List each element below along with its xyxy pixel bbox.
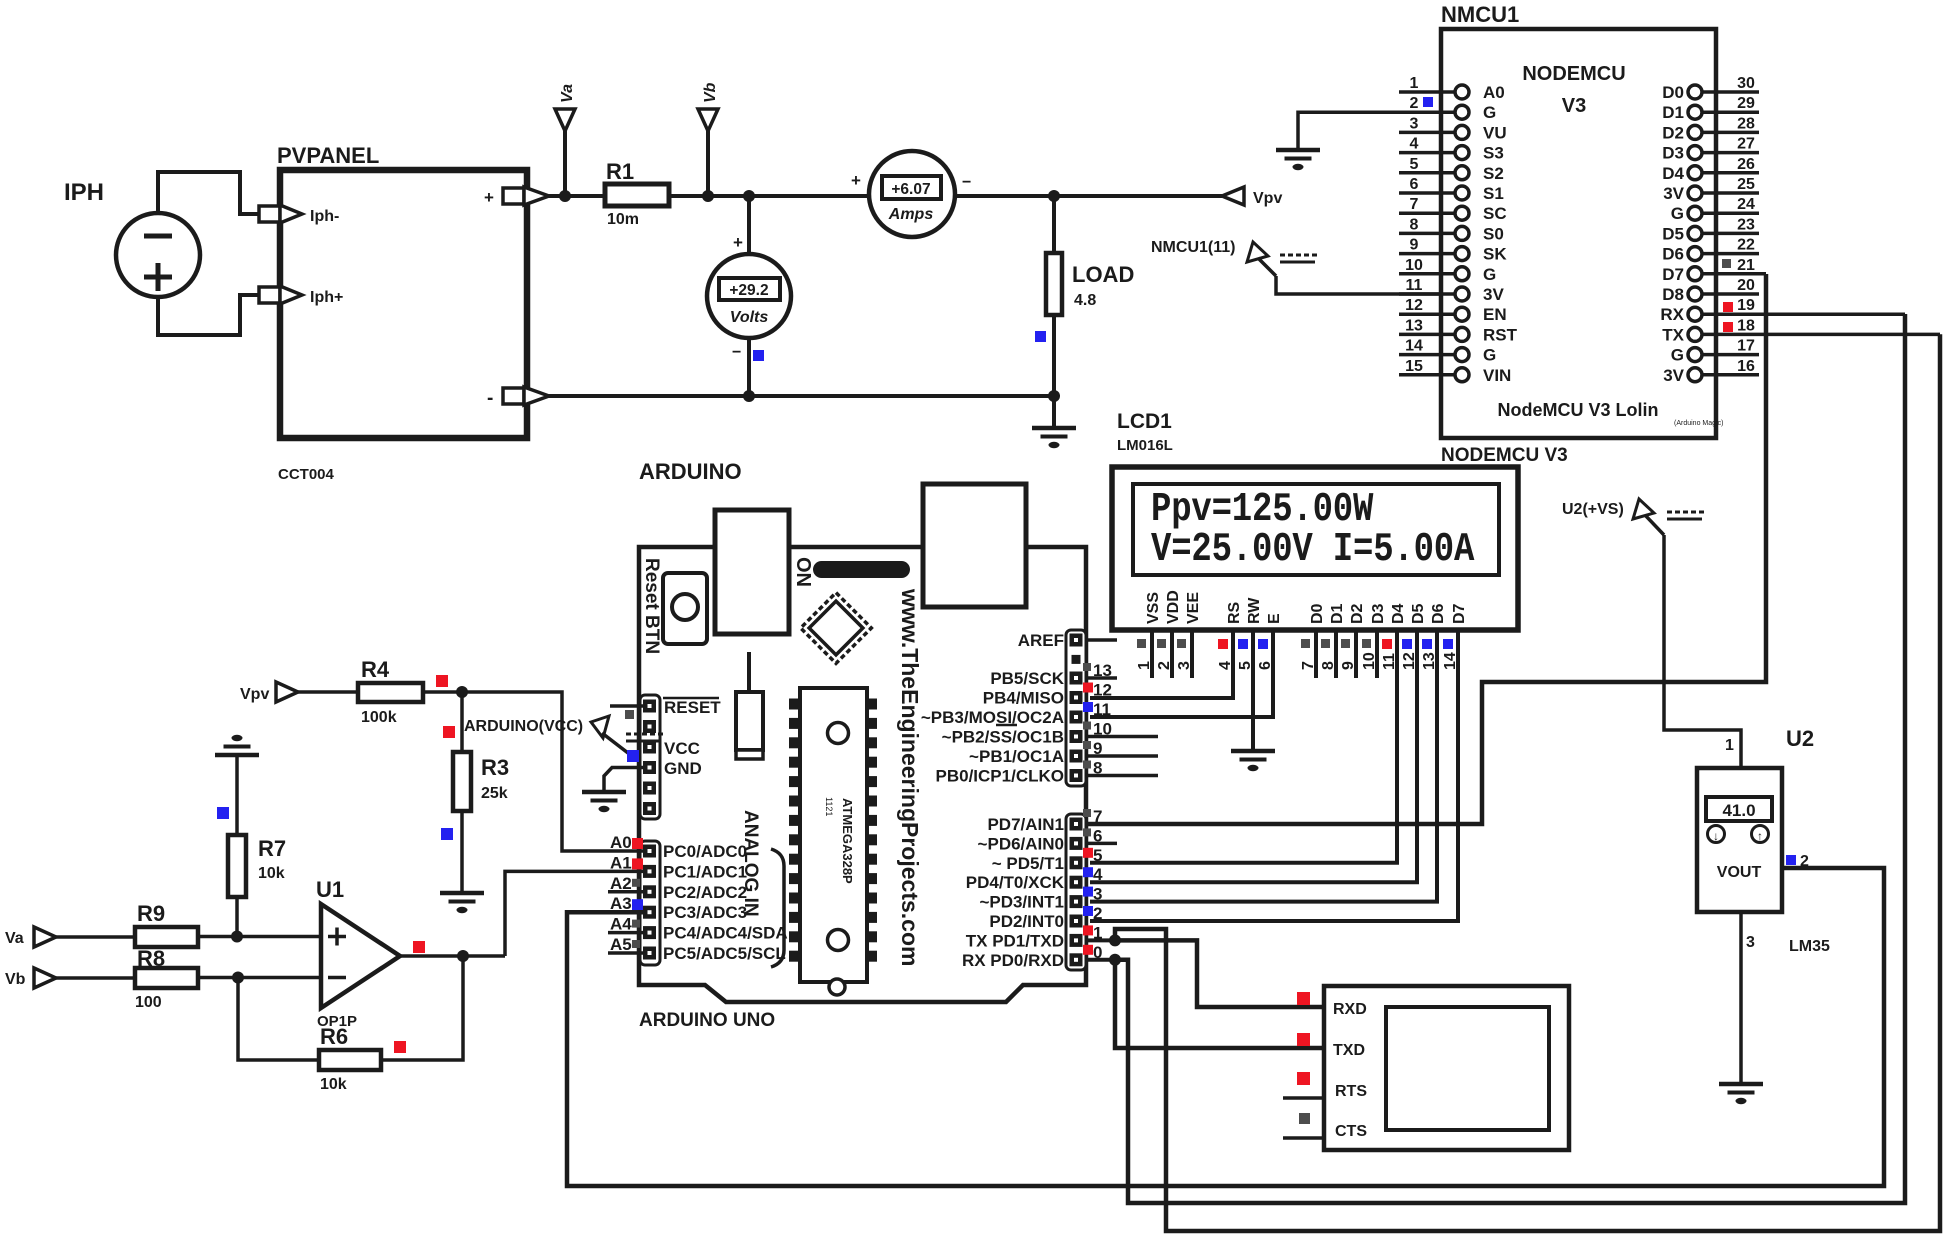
svg-text:6: 6 [1410,176,1419,193]
svg-text:ATMEGA328P: ATMEGA328P [840,798,855,884]
svg-text:D4: D4 [1662,164,1684,183]
wire U2 pin3 to ground [1739,912,1743,1083]
label AREF [1018,631,1064,650]
wire R7 to plus input [235,897,239,937]
svg-text:4: 4 [1410,136,1419,153]
ground above R7 [215,735,259,755]
wire arduino TX PD1 net [1086,334,1940,1231]
stub pin8 [1086,774,1158,778]
junction bottom load [1048,390,1060,402]
svg-text:LOAD: LOAD [1072,262,1134,287]
svg-text:D2: D2 [1662,123,1684,142]
wire LCD RS pin4 to arduino pin12 [1090,630,1233,698]
junction RX PD0 [1109,954,1121,966]
svg-text:V=25.00V I=5.00A: V=25.00V I=5.00A [1151,527,1475,573]
probe Vpv input [240,682,298,703]
svg-text:PC3/ADC3: PC3/ADC3 [663,903,747,922]
LCD pin numbers and tags [1136,639,1459,670]
junction load top [1048,190,1060,202]
svg-text:G: G [1671,346,1684,365]
ground at NodeMCU pin2 [1276,150,1320,170]
svg-text:D1: D1 [1329,603,1346,624]
svg-text:PD2/INT0: PD2/INT0 [989,912,1064,931]
svg-text:OP1P: OP1P [317,1013,357,1030]
svg-text:4.8: 4.8 [1074,292,1096,309]
svg-text:www.TheEngineeringProjects.com: www.TheEngineeringProjects.com [897,588,923,966]
probe Vb top [698,82,719,196]
svg-text:5: 5 [1093,846,1102,865]
svg-text:RTS: RTS [1335,1083,1367,1100]
svg-text:ARDUINO(VCC): ARDUINO(VCC) [464,718,583,735]
arduino smd chip diamond [801,593,872,664]
resistor LOAD [1046,253,1134,315]
label U2 pin2 [1800,853,1809,870]
terminal block [1324,986,1569,1150]
svg-text:U1: U1 [316,877,344,902]
svg-text:CCT004: CCT004 [278,466,335,483]
label RTS [1335,1083,1367,1100]
svg-text:3: 3 [1093,885,1102,904]
label U2 pin1 [1725,737,1734,754]
red tag R6 [394,1041,406,1053]
svg-text:30: 30 [1737,75,1755,92]
svg-text:D0: D0 [1662,83,1684,102]
svg-text:~PB3/MOSI/OC2A: ~PB3/MOSI/OC2A [921,708,1064,727]
svg-text:~PB2/SS/OC1B: ~PB2/SS/OC1B [942,728,1064,747]
arduino USB connector [715,510,789,634]
svg-text:+: + [484,188,494,207]
svg-text:NODEMCU: NODEMCU [1522,63,1625,85]
svg-text:VCC: VCC [664,739,700,758]
terminal screen [1386,1007,1549,1130]
svg-text:LM35: LM35 [1789,938,1830,955]
svg-text:1121: 1121 [824,797,834,816]
junction at Va [559,190,571,202]
red tag TXD [1297,1033,1310,1046]
svg-text:15: 15 [1405,358,1423,375]
voltmeter Volts [707,254,791,338]
svg-text:Reset BTN: Reset BTN [641,558,662,654]
ammeter minus label [962,174,971,191]
svg-text:28: 28 [1737,115,1755,132]
svg-text:R1: R1 [606,159,634,184]
svg-text:Vb: Vb [702,82,719,103]
svg-text:D1: D1 [1662,103,1684,122]
svg-text:27: 27 [1737,136,1755,153]
LCD pin labels [1145,590,1468,624]
svg-text:ARDUINO UNO: ARDUINO UNO [639,1010,775,1031]
wire R8 to opamp minus [198,976,321,980]
wire +VS to U2 pin1 [1664,535,1741,768]
label CTS [1335,1123,1367,1140]
svg-text:U2: U2 [1786,726,1814,751]
block PVPANEL [277,143,527,438]
gray tag reset [625,710,634,719]
svg-text:PD4/T0/XCK: PD4/T0/XCK [966,873,1065,892]
NodeMCU right pins 16-30 [1660,75,1940,385]
resistor R8 [135,946,198,1011]
svg-text:RX PD0/RXD: RX PD0/RXD [962,951,1064,970]
svg-text:3V: 3V [1483,285,1504,304]
svg-text:PB0/ICP1/CLKO: PB0/ICP1/CLKO [936,767,1064,786]
svg-text:11: 11 [1093,700,1111,719]
svg-text:D5: D5 [1662,224,1684,243]
ground at arduino GND [582,792,626,812]
blue tag NodeMCU pin2 [1423,97,1433,107]
svg-text:RST: RST [1483,325,1518,344]
svg-text:26: 26 [1737,156,1755,173]
wire opamp output [400,954,505,958]
label VCC [664,739,700,758]
LCD display screen [1133,484,1499,575]
svg-text:+29.2: +29.2 [729,282,768,299]
svg-text:41.0: 41.0 [1722,801,1755,820]
svg-text:8: 8 [1410,216,1419,233]
wire LCD D4 pin11 to arduino pin5 [1090,630,1397,863]
svg-text:2: 2 [1800,853,1809,870]
svg-text:NODEMCU V3: NODEMCU V3 [1441,445,1568,466]
svg-text:VIN: VIN [1483,366,1511,385]
wire output to A1 [505,871,643,956]
sensor U2 LM35 body [1697,726,1814,912]
stub RTS [1283,1096,1324,1100]
svg-text:−: − [962,174,971,191]
label Reset BTN [641,558,662,654]
arduino crystal [736,652,763,759]
wire R3 to ground [460,811,464,893]
resistor R1 [605,159,669,228]
gray tag CTS [1299,1113,1310,1124]
arduino power header pads [640,695,660,819]
wire ground to R7 [235,755,239,835]
svg-text:LM016L: LM016L [1117,437,1173,454]
volt meter plus label [733,233,743,252]
svg-text:10m: 10m [607,211,639,228]
svg-text:+6.07: +6.07 [891,181,930,198]
arduino power jack [923,484,1026,607]
svg-text:GND: GND [664,759,702,778]
svg-text:7: 7 [1410,196,1419,213]
probe Vpv output [1222,187,1282,207]
svg-text:3V: 3V [1663,366,1684,385]
pin Iph+ of PVPANEL [259,286,343,306]
svg-text:RESET: RESET [664,698,721,717]
svg-text:~PD6/AIN0: ~PD6/AIN0 [978,834,1064,853]
svg-text:A0: A0 [610,833,632,852]
svg-text:NMCU1: NMCU1 [1441,2,1519,27]
svg-text:S1: S1 [1483,184,1504,203]
svg-text:PC1/ADC1: PC1/ADC1 [663,862,747,881]
label ANALOG IN [740,810,761,917]
svg-text:AREF: AREF [1018,631,1064,650]
stub A5 [608,951,643,955]
svg-text:5: 5 [1410,156,1419,173]
ground under load [1032,428,1076,448]
svg-text:22: 22 [1737,237,1755,254]
blue tag R3 bottom [441,828,453,840]
probe U2(+VS) [1562,499,1704,535]
wire volts meter branch [747,196,751,254]
LCD text line2 [1151,527,1475,573]
svg-text:U2(+VS): U2(+VS) [1562,501,1624,518]
wire load top [1052,196,1056,253]
junction R4 R3 [456,686,468,698]
ground under U2 [1719,1084,1763,1104]
stub pin9 [1086,754,1158,758]
wire LCD RW pin5 to ground [1251,630,1255,750]
svg-text:D0: D0 [1309,603,1326,624]
wire LCD D7 pin14 to arduino pin2 [1090,630,1458,921]
pin - of PVPANEL [487,387,549,409]
svg-text:D4: D4 [1390,603,1407,624]
wire voltmeter to bottom rail [747,338,751,397]
stub AREF [1086,638,1117,642]
svg-text:3: 3 [1746,934,1755,951]
wire IPH top to Iph- [158,172,259,214]
svg-text:S2: S2 [1483,164,1504,183]
svg-text:16: 16 [1737,358,1755,375]
label TXD [1333,1042,1365,1059]
svg-text:EN: EN [1483,305,1507,324]
svg-text:SC: SC [1483,204,1507,223]
svg-text:100k: 100k [361,709,397,726]
svg-text:Volts: Volts [730,309,769,326]
svg-text:IPH: IPH [64,179,104,206]
svg-text:↑: ↑ [1757,829,1763,843]
svg-text:G: G [1483,346,1496,365]
svg-text:Amps: Amps [888,206,934,223]
resistor R6 [319,1024,381,1093]
svg-text:9: 9 [1410,237,1419,254]
svg-text:D5: D5 [1410,603,1427,624]
svg-text:17: 17 [1737,338,1755,355]
probe Vb input [5,968,56,988]
wire stub reset pin [610,704,643,708]
U2 adjust buttons [1708,826,1769,844]
svg-text:PC5/ADC5/SCL: PC5/ADC5/SCL [663,944,786,963]
arduino pin numbers 7-0 [1083,807,1103,962]
svg-text:RW: RW [1246,597,1263,624]
svg-text:VSS: VSS [1145,592,1162,624]
svg-text:↓: ↓ [1713,829,1719,843]
blue tag load [1035,331,1046,342]
resistor R9 [135,901,198,947]
arduino DIP28 ATMEGA328P [789,688,877,995]
svg-text:V3: V3 [1562,95,1586,117]
NodeMCU left pins 1-15 [1399,75,1518,385]
wire PV+ to R1 [547,194,606,198]
label VOUT [1717,864,1762,881]
label RXD [1333,1001,1367,1018]
svg-text:1: 1 [1725,737,1734,754]
bottom rail PV- to load [547,394,1054,398]
svg-text:TX PD1/TXD: TX PD1/TXD [966,931,1064,950]
arduino analog header pads [640,841,660,965]
svg-text:2: 2 [1093,904,1102,923]
pin + of PVPANEL [484,187,549,207]
probe Va [555,84,576,196]
arduino digital header pads PD [1066,814,1086,970]
red tag R4 [436,675,448,687]
probe ARDUINO(VCC) [464,716,663,753]
svg-text:~PB1/OC1A: ~PB1/OC1A [969,747,1064,766]
svg-text:RS: RS [1226,601,1243,624]
wire to ground under load [1052,396,1056,428]
node IPH label [64,179,104,206]
ground at LCD RW [1231,751,1275,771]
resistor R4 [358,657,423,726]
red tag NodeMCU pin18 [1723,322,1733,332]
wire Vb to R8 [56,976,135,980]
svg-text:21: 21 [1737,257,1755,274]
svg-text:−: − [732,344,741,361]
svg-text:E: E [1266,613,1283,624]
svg-text:R8: R8 [137,946,165,971]
wire NMCU1(11) to pin 11 [1276,276,1453,294]
svg-text:A1: A1 [610,853,632,872]
op-amp U1 [316,877,400,1030]
arduino PC pin labels [663,842,788,963]
svg-text:RX: RX [1660,305,1684,324]
svg-text:CTS: CTS [1335,1123,1367,1140]
label website vertical [897,588,923,966]
svg-text:D3: D3 [1662,144,1684,163]
svg-text:D7: D7 [1662,265,1684,284]
probe Va input [5,927,56,947]
svg-text:11: 11 [1406,277,1423,294]
svg-text:~PD3/INT1: ~PD3/INT1 [979,893,1064,912]
svg-text:ARDUINO: ARDUINO [639,459,742,484]
wire R9 to opamp plus [198,935,321,939]
svg-text:1: 1 [1410,75,1419,92]
svg-text:PB5/SCK: PB5/SCK [990,669,1064,688]
svg-text:Vpv: Vpv [1253,190,1282,207]
red tag NodeMCU pin19 [1723,302,1733,312]
blue tag vcc [627,750,639,762]
resistor R3 [453,752,509,811]
svg-text:23: 23 [1737,216,1755,233]
svg-text:VDD: VDD [1165,590,1182,624]
svg-text:12: 12 [1093,681,1112,700]
svg-text:+: + [851,171,861,190]
arduino analog pin labels [610,833,643,954]
stub A2 [608,890,643,894]
blue tag R7 [217,807,229,819]
junction volts branch [743,190,755,202]
svg-text:Va: Va [5,930,24,947]
ground under R3 [440,893,484,913]
wire R4 junction down to R3 [460,692,464,752]
svg-text:10: 10 [1405,257,1423,274]
svg-text:PC2/ADC2: PC2/ADC2 [663,883,747,902]
wire IPH bottom to Iph+ [158,295,259,335]
svg-text:S0: S0 [1483,224,1504,243]
svg-text:(Arduino Magic): (Arduino Magic) [1674,420,1723,427]
junction TX PD1 [1109,934,1121,946]
label ON [792,557,814,587]
svg-text:VU: VU [1483,123,1507,142]
svg-text:D3: D3 [1370,603,1387,624]
svg-text:RXD: RXD [1333,1001,1367,1018]
wire R4 to A0 [423,692,643,851]
pin Iph- of PVPANEL [259,205,339,225]
junction R7 Va [231,931,243,943]
svg-text:LCD1: LCD1 [1117,410,1172,433]
label CCT004 [278,466,335,483]
wire R6 to output junction [381,956,463,1060]
svg-text:Iph-: Iph- [310,208,339,225]
svg-text:G: G [1483,265,1496,284]
svg-text:D7: D7 [1451,603,1468,624]
svg-text:ON: ON [792,557,814,587]
wire Va to R9 [56,935,135,939]
svg-text:10k: 10k [258,865,285,882]
svg-text:A5: A5 [610,935,632,954]
svg-text:A0: A0 [1483,83,1505,102]
svg-text:12: 12 [1405,297,1423,314]
svg-text:S3: S3 [1483,144,1504,163]
wire NodeMCU pin2 to ground [1298,112,1399,149]
svg-text:D6: D6 [1662,245,1684,264]
svg-text:~ PD5/T1: ~ PD5/T1 [992,854,1064,873]
red tag RTS [1297,1072,1310,1085]
resistor R7 [228,835,286,897]
blue tag U2 pin2 [1786,855,1796,865]
analog in bracket [771,849,784,967]
svg-text:R7: R7 [258,836,286,861]
svg-text:D6: D6 [1430,603,1447,624]
svg-text:TX: TX [1662,325,1684,344]
wire load bottom [1052,315,1056,397]
svg-text:A4: A4 [610,915,632,934]
svg-text:+: + [733,233,743,252]
junction opamp output [457,950,469,962]
svg-text:PB4/MISO: PB4/MISO [983,689,1064,708]
svg-text:NodeMCU V3 Lolin: NodeMCU V3 Lolin [1498,400,1659,420]
svg-text:PVPANEL: PVPANEL [277,143,379,168]
label LM35 [1789,938,1830,955]
block ARDUINO UNO [639,459,1086,1031]
svg-text:PC4/ADC4/SDA: PC4/ADC4/SDA [663,924,788,943]
svg-text:D2: D2 [1349,603,1366,624]
wire R1 to amps meter [669,194,869,198]
svg-text:R3: R3 [481,755,509,780]
svg-text:20: 20 [1737,277,1755,294]
svg-text:R4: R4 [361,657,390,682]
label U2 pin3 [1746,934,1755,951]
block LCD1 LM016L [1112,410,1518,630]
svg-text:NMCU1(11): NMCU1(11) [1151,239,1235,256]
arduino digital header pads PB [1066,630,1086,786]
wire A3 to LM35 VOUT net [567,868,1884,1186]
label RESET with overline [663,698,721,717]
blue tag voltmeter [753,350,764,361]
svg-text:TXD: TXD [1333,1042,1365,1059]
wire Vpv to R4 [298,690,358,694]
LCD text line1 [1151,487,1374,533]
LCD stub pins [1152,630,1377,678]
wire arduino RX PD0 net [1086,314,1905,1203]
svg-text:25k: 25k [481,785,508,802]
junction R8 feedback [232,972,244,984]
arduino PD pin labels [962,815,1065,970]
svg-text:A2: A2 [610,874,632,893]
svg-text:R9: R9 [137,901,165,926]
svg-text:SK: SK [1483,245,1507,264]
svg-text:13: 13 [1405,317,1423,334]
svg-text:PC0/ADC0: PC0/ADC0 [663,842,747,861]
svg-text:D8: D8 [1662,285,1684,304]
